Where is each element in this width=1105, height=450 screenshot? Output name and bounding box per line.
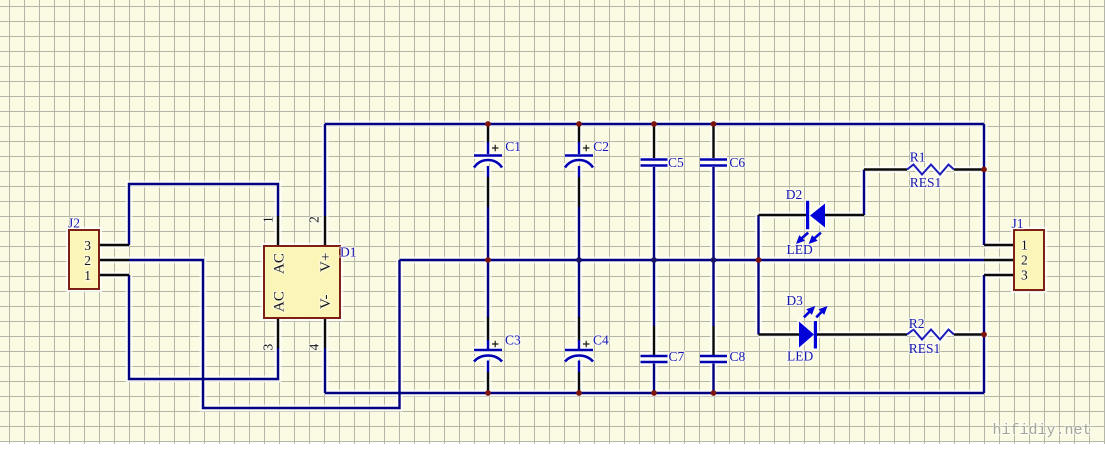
- svg-text:1: 1: [261, 216, 276, 223]
- capacitor C3 curved plate: [474, 356, 502, 362]
- svg-text:AC: AC: [272, 253, 288, 274]
- wire C4 bottom lead blue: [578, 361, 580, 373]
- capacitor C6 plate 2: [700, 164, 727, 167]
- wire C7 to V- bus: [653, 364, 655, 394]
- wire J2-3 to D1-1: [129, 184, 278, 245]
- svg-text:3: 3: [1021, 268, 1028, 283]
- LED D2 triangle: [810, 204, 825, 228]
- svg-text:hifidiy.net: hifidiy.net: [993, 422, 1092, 439]
- LED D2 emission arrow 2: [810, 233, 821, 244]
- wire D1-2 to V+ bus: [324, 124, 326, 216]
- svg-text:D3: D3: [786, 293, 803, 308]
- LED D3 triangle: [799, 322, 814, 348]
- junction bottom bus x=713.5: [711, 390, 717, 396]
- svg-text:1: 1: [84, 268, 91, 283]
- capacitor C1 plus plate: [474, 154, 502, 157]
- junction top bus x=654: [651, 121, 657, 127]
- wire J2-2 to GND rail: [129, 260, 400, 408]
- capacitor C4 plus plate: [565, 349, 593, 352]
- pin J1-1 stub: [984, 244, 1014, 246]
- pin D1-1: [277, 216, 279, 246]
- svg-text:2: 2: [1021, 253, 1028, 268]
- LED D3 emission arrow 1: [804, 307, 815, 318]
- svg-text:C7: C7: [669, 349, 685, 364]
- wire J2-1 to D1-3: [129, 275, 278, 379]
- wire C8 from GND bus: [712, 260, 714, 326]
- pin J1-2 stub: [984, 259, 1014, 261]
- wire V- bottom bus: [325, 392, 984, 394]
- svg-text:D1: D1: [340, 245, 357, 260]
- pin R1 left lead: [864, 168, 907, 170]
- pin D3 anode lead: [759, 333, 800, 335]
- svg-text:J1: J1: [1012, 216, 1024, 231]
- capacitor C2 curved plate: [565, 160, 593, 168]
- svg-text:RES1: RES1: [910, 175, 942, 190]
- svg-text:R2: R2: [909, 316, 925, 331]
- svg-text:4: 4: [307, 344, 322, 351]
- svg-text:C3: C3: [505, 333, 521, 348]
- svg-text:V-: V-: [318, 295, 334, 309]
- capacitor C6 plate 1: [700, 158, 727, 161]
- pin J2-2 stub: [99, 259, 129, 261]
- capacitor C4 curved plate: [565, 356, 593, 362]
- capacitor C1 curved plate: [474, 160, 502, 168]
- pin D3 cathode lead: [817, 333, 907, 335]
- capacitor C7 plate 1: [641, 355, 668, 358]
- wire C1 to GND bus: [487, 207, 489, 260]
- LED D3 emission arrow 2: [816, 307, 827, 318]
- pin C2 top lead: [578, 124, 580, 143]
- svg-text:RES1: RES1: [909, 341, 941, 356]
- pin D1-2: [324, 216, 326, 246]
- wire C3 top lead blue: [487, 340, 489, 349]
- junction bottom bus x=579: [576, 390, 582, 396]
- junction middle bus x=579: [576, 257, 582, 263]
- pin C4 bottom lead: [578, 372, 580, 393]
- capacitor C3 plus plate: [474, 349, 502, 352]
- junction top bus x=488: [485, 121, 491, 127]
- bridge rectifier D1 body: [264, 246, 340, 318]
- svg-text:2: 2: [84, 253, 91, 268]
- pin R1 right lead: [954, 168, 984, 170]
- svg-text:C8: C8: [730, 349, 746, 364]
- junction middle bus x=654: [651, 257, 657, 263]
- svg-text:C4: C4: [593, 333, 609, 348]
- junction R2 right: [981, 332, 987, 338]
- capacitor C7 plate 2: [641, 361, 668, 364]
- connector J2: [69, 230, 99, 289]
- junction bottom bus x=488: [485, 390, 491, 396]
- pin C3 bottom lead: [487, 372, 489, 393]
- wire C2 bottom lead blue: [578, 166, 580, 177]
- svg-text:AC: AC: [272, 291, 288, 312]
- capacitor C1 plus sign: [492, 145, 498, 151]
- connector J1: [1014, 230, 1044, 290]
- resistor R1 zigzag: [907, 165, 954, 175]
- pin D2 anode lead: [825, 214, 864, 216]
- junction top bus x=579: [576, 121, 582, 127]
- wire C7 from GND bus: [653, 260, 655, 326]
- wire C6 to GND bus: [712, 167, 714, 260]
- pin J2-1 stub: [99, 274, 129, 276]
- capacitor C2 plus sign: [583, 145, 589, 151]
- junction middle bus x=488: [485, 257, 491, 263]
- wire GND middle bus: [400, 259, 985, 261]
- svg-text:C5: C5: [668, 155, 684, 170]
- pin C6 top lead: [712, 124, 714, 158]
- capacitor C4 plus sign: [583, 341, 589, 347]
- pin C3 top lead: [487, 317, 489, 341]
- svg-text:C6: C6: [729, 155, 745, 170]
- wire C1 bottom lead blue: [487, 166, 489, 177]
- pin C7 top lead: [653, 326, 655, 355]
- wire C8 to V- bus: [712, 364, 714, 394]
- pin D1-4: [324, 318, 326, 348]
- LED D2 emission arrow 1: [797, 233, 808, 244]
- junction R1 right: [981, 167, 987, 173]
- pin C1 top lead: [487, 124, 489, 143]
- junction middle bus x=713.5: [711, 257, 717, 263]
- wire R1 to D2 vertical: [863, 170, 865, 216]
- wire J1-3 down to V- bus: [983, 275, 985, 393]
- capacitor C8 plate 1: [700, 355, 727, 358]
- junction top bus x=713.5: [711, 121, 717, 127]
- svg-text:1: 1: [1021, 238, 1028, 253]
- pin C8 top lead: [712, 326, 714, 355]
- wire C4 from GND bus: [578, 260, 580, 318]
- capacitor C3 plus sign: [492, 341, 498, 347]
- LED D3 cathode bar: [814, 321, 817, 349]
- svg-text:LED: LED: [787, 348, 813, 363]
- pin J1-3 stub: [984, 274, 1014, 276]
- wire C3 bottom lead blue: [487, 361, 489, 373]
- capacitor C5 plate 2: [641, 164, 668, 167]
- wire C5 to GND bus: [653, 167, 655, 260]
- pin C4 top lead: [578, 317, 580, 341]
- wire C2 top lead blue: [578, 142, 580, 154]
- svg-text:3: 3: [84, 238, 91, 253]
- svg-text:LED: LED: [787, 242, 813, 257]
- svg-text:J2: J2: [68, 216, 80, 231]
- svg-text:C1: C1: [505, 139, 521, 154]
- pin C2 bottom lead: [578, 177, 580, 207]
- pin R2 right lead: [954, 333, 984, 335]
- pin C1 bottom lead: [487, 177, 489, 207]
- svg-text:3: 3: [261, 344, 276, 351]
- wire V+ top bus: [325, 123, 984, 125]
- junction bottom bus x=654: [651, 390, 657, 396]
- svg-text:D2: D2: [786, 187, 803, 202]
- resistor R2 zigzag: [907, 330, 954, 340]
- pin D1-3: [277, 318, 279, 348]
- wire C1 top lead blue: [487, 142, 489, 154]
- pin J2-3 stub: [99, 244, 129, 246]
- svg-text:C2: C2: [593, 139, 609, 154]
- svg-text:2: 2: [307, 216, 322, 223]
- wire D1-4 to V- bus: [324, 348, 326, 393]
- svg-text:R1: R1: [910, 150, 926, 165]
- svg-text:V+: V+: [318, 253, 334, 272]
- capacitor C5 plate 1: [641, 158, 668, 161]
- LED D2 cathode bar: [806, 201, 809, 229]
- capacitor C8 plate 2: [700, 361, 727, 364]
- wire C3 from GND bus: [487, 260, 489, 318]
- capacitor C2 plus plate: [565, 154, 593, 157]
- wire C4 top lead blue: [578, 340, 580, 349]
- junction middle bus x=758.5: [756, 257, 762, 263]
- wire V+ bus down to J1-1: [983, 124, 985, 245]
- pin D2 cathode lead: [759, 214, 807, 216]
- pin C5 top lead: [653, 124, 655, 158]
- wire C2 to GND bus: [578, 207, 580, 260]
- wire LED chain vertical: [757, 215, 759, 335]
